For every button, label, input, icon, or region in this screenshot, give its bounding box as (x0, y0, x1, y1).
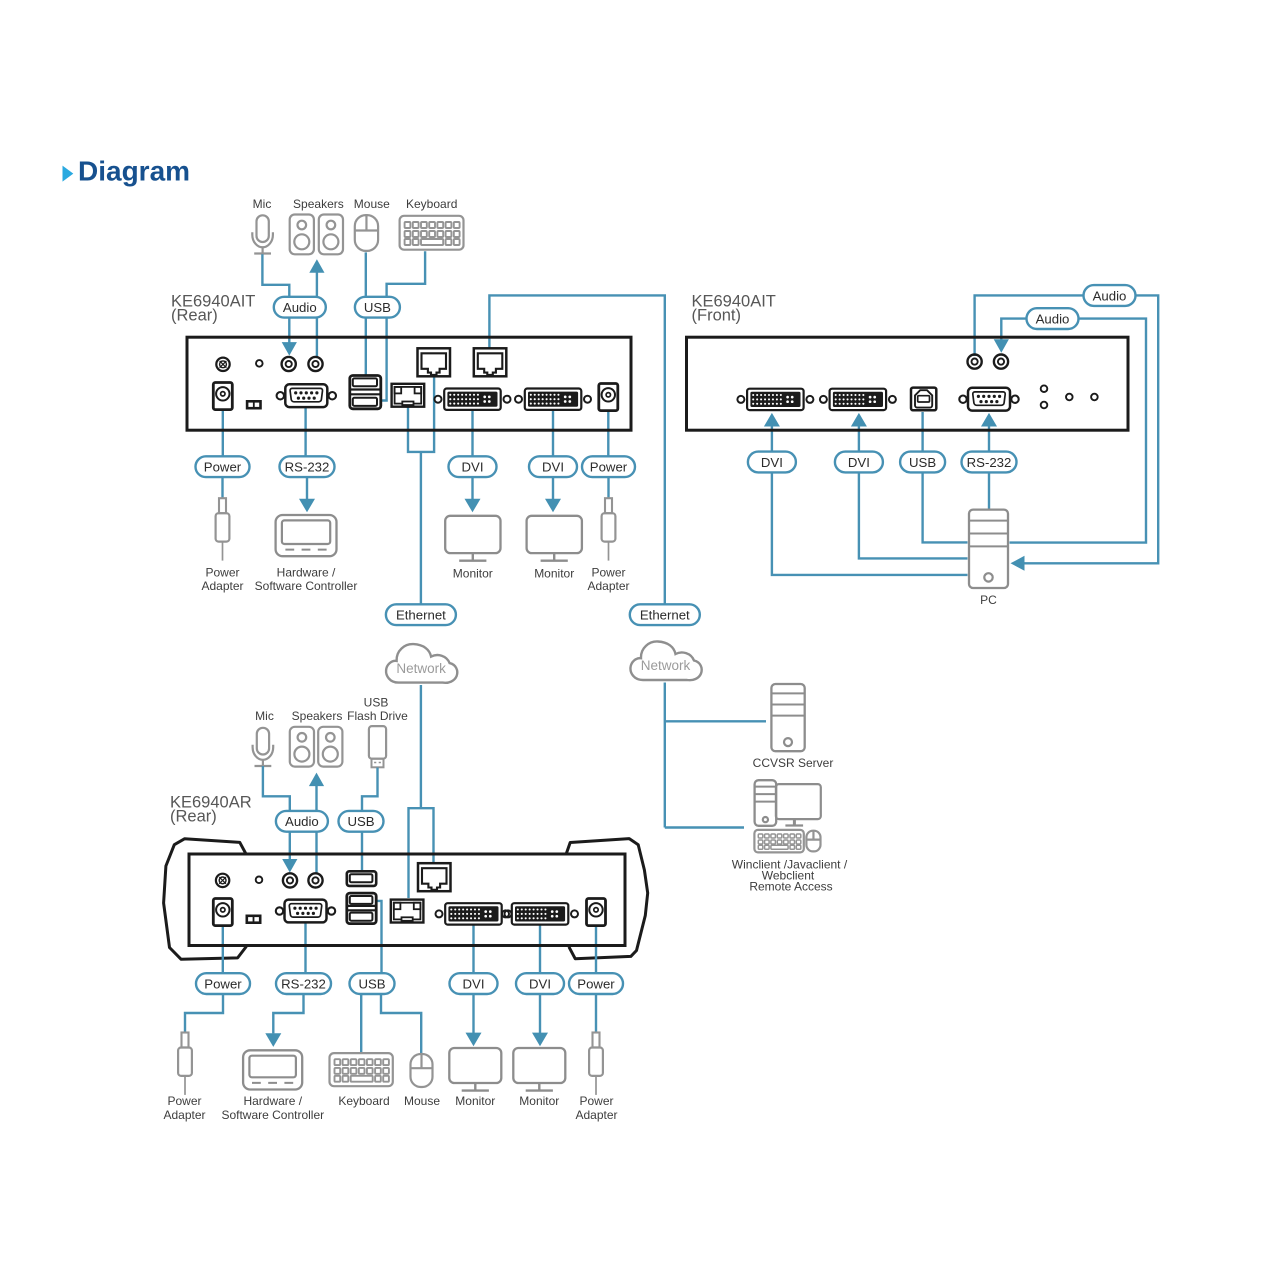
keyboard icon (top) (400, 216, 464, 250)
wire branch to remote client (665, 826, 744, 828)
PC tower icon (969, 510, 1008, 588)
svg-text:Power: Power (591, 566, 625, 580)
usb flash drive icon (369, 726, 386, 759)
port DVI-1 (receiver) (436, 910, 443, 917)
svg-text:Adapter: Adapter (201, 579, 243, 593)
svg-text:DVI: DVI (848, 455, 870, 470)
wire receiver stacked USB to bottom USB pill (376, 901, 381, 974)
speaker icon right (bottom) (318, 727, 342, 767)
wire Audio pill 2 right into PC (1010, 319, 1147, 543)
port ground screw (rear) (216, 358, 229, 371)
mic icon (bottom) (257, 728, 269, 755)
wire branch to CCVSR server (665, 720, 766, 722)
power adapter icon left (rear) (219, 498, 226, 513)
svg-text:Power: Power (204, 460, 242, 475)
wire+arrow DVI-1 to monitor (471, 477, 473, 499)
svg-text:Flash Drive: Flash Drive (347, 709, 408, 723)
port config switch (rear) (246, 400, 262, 410)
port RJ45 link 2 (rear) (474, 348, 507, 376)
wire receiver DB9 to RS-232 pill (304, 918, 306, 974)
svg-text:Software Controller: Software Controller (255, 579, 358, 593)
pill front USB (900, 452, 945, 473)
wire cloud left down to receiver (420, 685, 422, 808)
port audio speaker jack (rear) (308, 357, 322, 371)
network cloud right (630, 641, 701, 680)
wire USB pill to keyboard (bottom) (360, 994, 362, 1054)
svg-text:DVI: DVI (463, 976, 485, 991)
svg-text:Mic: Mic (253, 197, 272, 211)
mouse icon (bottom) (411, 1054, 433, 1087)
svg-text:USB: USB (364, 300, 391, 315)
svg-text:Monitor: Monitor (534, 566, 574, 580)
svg-text:USB: USB (358, 976, 385, 991)
client mouse icon (806, 831, 820, 852)
svg-text:PC: PC (980, 593, 997, 607)
svg-text:Network: Network (396, 661, 446, 676)
svg-text:Audio: Audio (285, 814, 319, 829)
port LAN RJ45 (receiver) (391, 900, 424, 923)
wire front audio-out jack up to Audio pill (975, 295, 1085, 356)
speaker icon left (top) (290, 215, 314, 255)
svg-text:DVI: DVI (761, 455, 783, 470)
port RJ45 link 1 (rear) (418, 348, 451, 376)
power adapter icon (bottom left) (182, 1033, 189, 1048)
wire+arrow Audio into receiver mic jack (289, 829, 291, 860)
pill Power right (rear) (582, 456, 635, 477)
svg-text:DVI: DVI (542, 460, 564, 475)
svg-text:Speakers: Speakers (292, 709, 343, 723)
client tower icon (755, 780, 777, 826)
wire USB pill to mouse (bottom) (381, 994, 421, 1055)
wire Power pill to adapter right (607, 477, 609, 499)
svg-text:USB: USB (347, 814, 374, 829)
svg-text:(Rear): (Rear) (170, 808, 217, 826)
wire Power pill to adapter (bottom right) (595, 994, 597, 1033)
device body fill KE6940AIT front (687, 337, 1129, 430)
receiver right wing (566, 839, 648, 959)
svg-text:Power: Power (204, 976, 242, 991)
svg-text:Audio: Audio (1093, 288, 1127, 303)
pill Audio (top) (274, 297, 326, 318)
monitor icon 2 (rear) (527, 516, 582, 553)
monitor icon 2 (bottom) (513, 1048, 565, 1083)
svg-text:Adapter: Adapter (163, 1108, 205, 1122)
wire Audio pill 2 to front audio-in jack (arrow) (1001, 319, 1028, 340)
pill Power left (rear) (196, 456, 250, 477)
wire receiver DC left to Power pill (222, 915, 224, 974)
svg-text:Hardware /: Hardware / (243, 1094, 302, 1108)
wire DVI-2 to pill (552, 405, 554, 457)
port front DVI-1 (737, 396, 744, 403)
port front RS-232 DB9 (959, 396, 966, 403)
svg-text:Mouse: Mouse (354, 197, 390, 211)
port front audio jack 1 (968, 355, 982, 369)
wire+arrow front DVI-1 to pill to PC (764, 413, 780, 427)
port audio speaker jack (receiver) (308, 873, 322, 887)
monitor icon 1 (rear) (445, 516, 500, 553)
svg-text:RS-232: RS-232 (281, 976, 326, 991)
pill Audio outer (front) (1084, 285, 1136, 306)
wire front USB-B to pill to PC (921, 412, 923, 453)
client monitor icon (776, 784, 821, 819)
svg-text:Power: Power (577, 976, 615, 991)
port USB-A single (receiver) (347, 871, 376, 886)
speaker icon left (bottom) (290, 727, 314, 767)
svg-text:Keyboard: Keyboard (406, 197, 457, 211)
pill DVI-2 (receiver) (516, 973, 564, 994)
port LED (rear) (256, 360, 263, 367)
pill DVI-1 (rear) (449, 456, 497, 477)
port LED (receiver) (256, 877, 263, 884)
svg-text:Keyboard: Keyboard (338, 1094, 389, 1108)
wire receiver DVI-2 to pill (539, 920, 541, 974)
svg-text:Power: Power (590, 460, 628, 475)
port DC jack left (receiver) (213, 899, 232, 926)
svg-text:Adapter: Adapter (575, 1108, 617, 1122)
port RJ45 link (receiver) (418, 863, 451, 891)
wire+arrow front DVI-2 to pill to PC (851, 413, 867, 427)
device box border KE6940AIT rear (187, 337, 631, 430)
port front DVI-2 (820, 396, 827, 403)
pill front RS-232 (962, 452, 1017, 473)
wire keyboard to USB pill / USB port (381, 251, 425, 400)
svg-text:Speakers: Speakers (293, 197, 344, 211)
port RS-232 DB9 (receiver) (276, 907, 283, 914)
svg-text:DVI: DVI (529, 976, 551, 991)
svg-text:Software Controller: Software Controller (221, 1108, 324, 1122)
svg-text:Power: Power (205, 566, 239, 580)
client keyboard icon (754, 830, 803, 853)
wire+arrow front RS-232 to pill to PC (981, 413, 997, 427)
svg-text:Audio: Audio (1036, 311, 1070, 326)
wire Power pill to adapter left (221, 477, 223, 499)
svg-text:(Rear): (Rear) (171, 307, 218, 325)
wire Power pill to adapter (bottom left) (185, 994, 223, 1033)
wire + arrow speakers (audio out) (309, 259, 324, 273)
wire mic to Audio pill (bottom) (263, 766, 290, 813)
wire DB9 to RS-232 pill (304, 402, 306, 457)
port DC jack right (receiver) (587, 899, 606, 926)
wire receiver DC right to Power pill (595, 915, 597, 974)
wire mouse to USB pill / USB port (365, 252, 367, 376)
wire+arrow RS-232 to controller (306, 477, 308, 499)
svg-text:(Front): (Front) (692, 307, 742, 325)
svg-text:Ethernet: Ethernet (396, 608, 446, 623)
power adapter icon (bottom right) (593, 1033, 600, 1048)
svg-text:RS-232: RS-232 (285, 460, 330, 475)
pill Ethernet right (630, 604, 700, 625)
svg-text:Diagram: Diagram (78, 156, 190, 187)
wire receiver DVI-1 to pill (472, 920, 474, 974)
wire Audio pill right to PC (arrow) (1024, 295, 1158, 563)
pill RS-232 (receiver) (276, 973, 331, 994)
svg-text:Adapter: Adapter (587, 579, 629, 593)
svg-text:USB: USB (909, 455, 936, 470)
wire arrow Audio into mic jack (288, 315, 290, 343)
port LAN RJ45 (rear) (392, 384, 425, 407)
pill USB (top) (355, 297, 400, 318)
hardware/software controller icon (rear) (276, 515, 337, 556)
pill front DVI-1 (748, 452, 796, 473)
wire LAN+RJ45 bracket to Ethernet (408, 370, 434, 452)
pill Power left (receiver) (196, 973, 250, 994)
wire+arrow DVI-2 to monitor (bottom) (539, 994, 541, 1033)
speaker icon right (top) (319, 215, 343, 255)
port DC jack left (rear) (213, 383, 232, 410)
device box border KE6940AR (189, 854, 625, 946)
svg-text:Audio: Audio (283, 300, 317, 315)
pill Ethernet left (386, 604, 456, 625)
wire+arrow DVI-2 to monitor (552, 477, 554, 499)
pill Power right (receiver) (569, 973, 623, 994)
wire mic to Audio pill (262, 254, 289, 300)
wire RJ45-2 up over to right rail (489, 295, 664, 605)
port DVI-2 (receiver) (502, 910, 509, 917)
svg-text:Hardware /: Hardware / (277, 566, 336, 580)
svg-text:RS-232: RS-232 (967, 455, 1012, 470)
svg-text:Power: Power (167, 1094, 201, 1108)
wire bracket to receiver ports (409, 808, 434, 898)
port USB-A x2 (receiver) (347, 893, 376, 924)
port USB-A x2 (rear) (350, 376, 381, 409)
device box border KE6940AIT front (687, 337, 1129, 430)
receiver left wing (164, 839, 247, 959)
svg-text:Monitor: Monitor (453, 566, 493, 580)
wire+arrow RS-232 to controller (bottom) (273, 994, 303, 1033)
port audio mic jack (receiver) (283, 873, 297, 887)
pill Audio (bottom) (276, 811, 328, 832)
svg-text:Network: Network (641, 658, 691, 673)
power adapter icon right (rear) (605, 498, 612, 513)
device body fill KE6940AIT rear (187, 337, 631, 430)
wire DC power right to Power pill (607, 399, 609, 457)
svg-text:Monitor: Monitor (455, 1094, 495, 1108)
pill DVI-1 (receiver) (450, 973, 498, 994)
port ground screw (receiver) (216, 874, 229, 887)
port audio mic jack (rear) (282, 357, 296, 371)
svg-text:DVI: DVI (462, 460, 484, 475)
svg-text:Mic: Mic (255, 709, 274, 723)
port front USB-B (911, 388, 936, 411)
port front LEDs (1041, 385, 1048, 392)
svg-text:USB: USB (364, 696, 389, 710)
port DVI-2 (rear) (515, 396, 522, 403)
pill USB (receiver) (350, 973, 395, 994)
port RS-232 DB9 (rear) (277, 392, 284, 399)
port front audio jack 2 (994, 355, 1008, 369)
port config switch (receiver) (246, 915, 262, 925)
svg-text:Ethernet: Ethernet (640, 608, 690, 623)
svg-text:CCVSR Server: CCVSR Server (753, 756, 834, 770)
pill USB (bottom) (339, 811, 384, 832)
wire DVI-1 to pill (471, 405, 473, 457)
mic icon (top) (257, 215, 269, 242)
svg-text:Power: Power (579, 1094, 613, 1108)
wire cloud right down (664, 683, 666, 828)
controller icon (bottom) (243, 1050, 302, 1089)
pill Audio inner (front) (1027, 308, 1079, 329)
wire+arrow speakers (bottom) (309, 773, 324, 787)
mouse icon (top) (355, 215, 378, 251)
svg-text:Mouse: Mouse (404, 1094, 440, 1108)
device body fill KE6940AR receiver + wings (164, 839, 247, 959)
heading bullet triangle (63, 166, 74, 182)
svg-text:Monitor: Monitor (519, 1094, 559, 1108)
pill DVI-2 (rear) (529, 456, 577, 477)
wire+arrow DVI-1 to monitor (bottom) (472, 994, 474, 1033)
wire DC power left to Power pill (222, 399, 224, 457)
port DVI-1 (rear) (435, 396, 442, 403)
svg-text:Remote Access: Remote Access (749, 879, 832, 893)
pill RS-232 (rear) (280, 456, 335, 477)
wire flash drive to USB pill (bottom) (362, 768, 378, 814)
wire USB pill into receiver USB port (361, 829, 363, 870)
monitor icon 1 (bottom) (449, 1048, 501, 1083)
keyboard icon (bottom) (330, 1053, 393, 1086)
CCVSR server tower icon (771, 684, 804, 751)
pill front DVI-2 (835, 452, 883, 473)
port DC jack right (rear) (599, 384, 618, 411)
network cloud left (386, 644, 457, 683)
